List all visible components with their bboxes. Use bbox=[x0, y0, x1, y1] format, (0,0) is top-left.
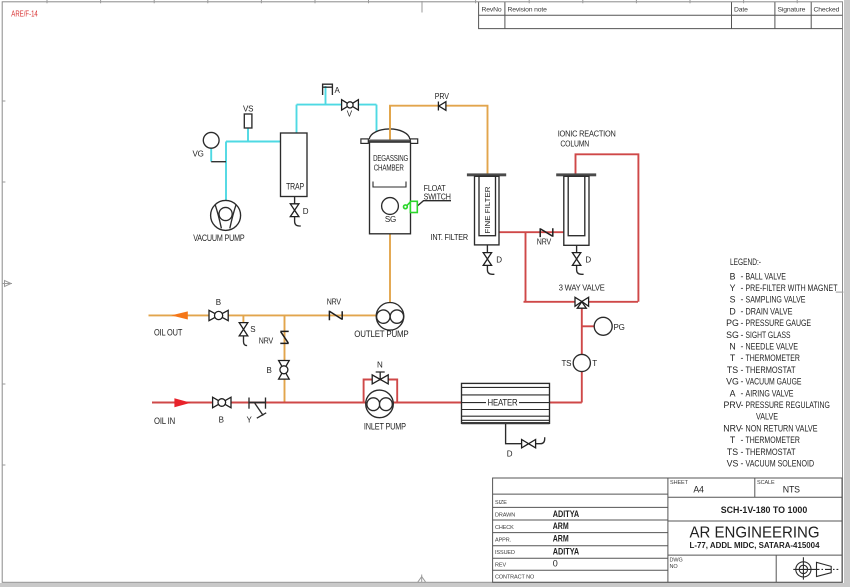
svg-text:B: B bbox=[219, 415, 224, 424]
svg-text:SG: SG bbox=[385, 215, 396, 224]
svg-text:PRV: PRV bbox=[435, 92, 450, 101]
svg-text:B: B bbox=[267, 366, 272, 375]
svg-text:ARM: ARM bbox=[553, 521, 569, 531]
svg-text:ARM: ARM bbox=[553, 533, 569, 543]
svg-text:INLET PUMP: INLET PUMP bbox=[364, 422, 406, 432]
svg-text:NRV: NRV bbox=[327, 298, 342, 307]
svg-text:THERMOMETER: THERMOMETER bbox=[746, 353, 800, 363]
svg-text:D: D bbox=[496, 255, 502, 264]
svg-text:TS: TS bbox=[562, 359, 572, 368]
svg-text:CHAMBER: CHAMBER bbox=[374, 164, 404, 173]
svg-text:OUTLET PUMP: OUTLET PUMP bbox=[354, 329, 408, 339]
svg-text:-: - bbox=[741, 365, 744, 375]
svg-text:NON RETURN VALVE: NON RETURN VALVE bbox=[746, 423, 818, 433]
svg-text:SCH-1V-180 TO 1000: SCH-1V-180 TO 1000 bbox=[721, 505, 808, 515]
svg-text:VG: VG bbox=[726, 377, 739, 387]
svg-text:N: N bbox=[729, 342, 735, 352]
svg-text:TS: TS bbox=[727, 447, 738, 457]
svg-text:S: S bbox=[250, 325, 255, 334]
svg-text:NO: NO bbox=[670, 564, 679, 570]
svg-text:A: A bbox=[335, 86, 341, 95]
svg-text:THERMOMETER: THERMOMETER bbox=[746, 435, 800, 445]
svg-text:FINE FILTER: FINE FILTER bbox=[483, 186, 492, 234]
svg-text:COLUMN: COLUMN bbox=[560, 140, 589, 149]
svg-text:VALVE: VALVE bbox=[756, 412, 778, 422]
svg-text:NRV: NRV bbox=[259, 337, 274, 346]
svg-text:THERMOSTAT: THERMOSTAT bbox=[746, 365, 797, 375]
svg-text:Y: Y bbox=[247, 415, 253, 424]
svg-text:VS: VS bbox=[727, 459, 739, 469]
svg-text:PG: PG bbox=[614, 323, 625, 332]
svg-text:PRV: PRV bbox=[724, 400, 742, 410]
svg-text:A: A bbox=[730, 388, 736, 398]
svg-text:RevNo: RevNo bbox=[482, 7, 502, 14]
svg-text:-: - bbox=[741, 388, 744, 398]
svg-text:NEEDLE VALVE: NEEDLE VALVE bbox=[746, 342, 799, 352]
svg-text:-: - bbox=[741, 435, 744, 445]
svg-text:DWG: DWG bbox=[670, 558, 683, 564]
svg-text:SCALE: SCALE bbox=[757, 480, 775, 486]
svg-text:B: B bbox=[730, 271, 736, 281]
svg-text:B: B bbox=[216, 298, 221, 307]
svg-text:DRAIN VALVE: DRAIN VALVE bbox=[746, 306, 793, 316]
svg-text:SAMPLING VALVE: SAMPLING VALVE bbox=[746, 295, 806, 305]
svg-text:REV: REV bbox=[495, 562, 506, 568]
svg-text:ARE/F-14: ARE/F-14 bbox=[11, 9, 38, 19]
svg-text:PRESSURE GAUGE: PRESSURE GAUGE bbox=[746, 318, 812, 328]
svg-text:BALL VALVE: BALL VALVE bbox=[746, 271, 787, 281]
svg-text:0: 0 bbox=[553, 559, 558, 569]
svg-text:VG: VG bbox=[193, 150, 204, 159]
svg-text:-: - bbox=[741, 353, 744, 363]
svg-text:PRE-FILTER WITH MAGNET: PRE-FILTER WITH MAGNET bbox=[746, 283, 838, 293]
svg-text:SHEET: SHEET bbox=[670, 480, 689, 486]
svg-text:Date: Date bbox=[734, 7, 748, 14]
svg-text:-: - bbox=[741, 283, 744, 293]
svg-text:D: D bbox=[585, 255, 591, 264]
svg-text:THERMOSTAT: THERMOSTAT bbox=[746, 447, 797, 457]
svg-text:L-77, ADDL MIDC, SATARA-415004: L-77, ADDL MIDC, SATARA-415004 bbox=[690, 541, 821, 550]
svg-text:Signature: Signature bbox=[778, 7, 806, 14]
svg-text:LEGEND:-: LEGEND:- bbox=[730, 257, 761, 268]
svg-text:IONIC REACTION: IONIC REACTION bbox=[558, 129, 616, 138]
svg-text:NTS: NTS bbox=[783, 484, 800, 494]
svg-text:TS: TS bbox=[727, 365, 738, 375]
svg-text:Revision note: Revision note bbox=[508, 7, 548, 14]
svg-text:-: - bbox=[741, 318, 744, 328]
svg-text:D: D bbox=[507, 450, 513, 459]
svg-text:ADITYA: ADITYA bbox=[553, 509, 580, 519]
svg-text:CHECK: CHECK bbox=[495, 525, 514, 531]
svg-text:T: T bbox=[592, 359, 597, 368]
svg-text:V: V bbox=[347, 110, 353, 119]
svg-text:-: - bbox=[741, 295, 744, 305]
svg-text:APPR.: APPR. bbox=[495, 537, 512, 543]
svg-text:ADITYA: ADITYA bbox=[553, 546, 580, 556]
svg-text:CONTRACT NO: CONTRACT NO bbox=[495, 574, 535, 580]
svg-text:3 WAY VALVE: 3 WAY VALVE bbox=[559, 283, 605, 292]
svg-text:ISSUED: ISSUED bbox=[495, 550, 515, 556]
svg-text:NRV: NRV bbox=[723, 423, 742, 433]
svg-text:-: - bbox=[741, 423, 744, 433]
svg-text:T: T bbox=[730, 435, 736, 445]
svg-text:SG: SG bbox=[726, 330, 739, 340]
svg-text:S: S bbox=[730, 295, 736, 305]
svg-text:-: - bbox=[741, 342, 744, 352]
svg-text:Checked: Checked bbox=[814, 7, 840, 14]
svg-text:INT. FILTER: INT. FILTER bbox=[431, 233, 469, 242]
svg-text:-: - bbox=[741, 271, 744, 281]
svg-text:D: D bbox=[303, 207, 309, 216]
svg-text:DEGASSING: DEGASSING bbox=[373, 154, 408, 163]
svg-text:PRESSURE REGULATING: PRESSURE REGULATING bbox=[746, 400, 831, 410]
svg-text:OIL IN: OIL IN bbox=[154, 416, 175, 426]
svg-text:N: N bbox=[377, 361, 383, 370]
svg-text:-: - bbox=[741, 306, 744, 316]
svg-text:PG: PG bbox=[726, 318, 739, 328]
svg-text:-: - bbox=[741, 377, 744, 387]
svg-text:OIL OUT: OIL OUT bbox=[154, 327, 183, 337]
svg-text:VACUUM GAUGE: VACUUM GAUGE bbox=[746, 377, 802, 387]
svg-text:VACUUM SOLENOID: VACUUM SOLENOID bbox=[746, 459, 815, 469]
svg-text:SIZE: SIZE bbox=[495, 500, 507, 506]
svg-text:DRAWN: DRAWN bbox=[495, 512, 515, 518]
svg-text:AIRING VALVE: AIRING VALVE bbox=[746, 388, 794, 398]
svg-text:HEATER: HEATER bbox=[488, 397, 518, 407]
svg-text:Y: Y bbox=[730, 283, 736, 293]
svg-text:NRV: NRV bbox=[537, 238, 552, 247]
svg-text:-: - bbox=[741, 400, 744, 410]
svg-text:-: - bbox=[741, 330, 744, 340]
svg-text:VS: VS bbox=[243, 105, 253, 114]
svg-text:AR ENGINEERING: AR ENGINEERING bbox=[690, 525, 820, 542]
svg-text:-: - bbox=[741, 447, 744, 457]
svg-text:A4: A4 bbox=[693, 484, 704, 494]
svg-text:SWITCH: SWITCH bbox=[424, 192, 452, 201]
svg-text:T: T bbox=[730, 353, 736, 363]
svg-text:-: - bbox=[741, 459, 744, 469]
svg-text:VACUUM PUMP: VACUUM PUMP bbox=[193, 233, 245, 243]
svg-text:D: D bbox=[729, 306, 735, 316]
svg-text:TRAP: TRAP bbox=[286, 181, 304, 191]
svg-text:SIGHT GLASS: SIGHT GLASS bbox=[746, 330, 791, 340]
